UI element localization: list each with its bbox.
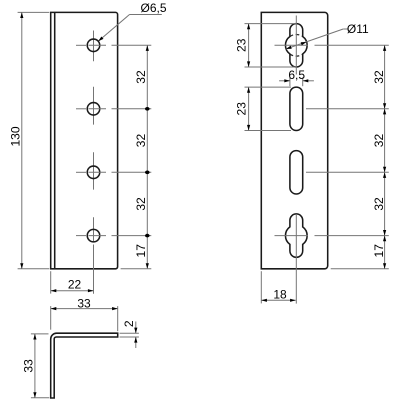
- svg-text:18: 18: [273, 287, 287, 301]
- dimension 33 (left) line: [34, 334, 36, 398]
- svg-text:17: 17: [372, 244, 386, 258]
- left view bend line: [54, 12, 56, 268]
- svg-text:32: 32: [134, 134, 148, 148]
- slot S2 outline: [290, 87, 303, 130]
- keyhole K1 horizontal centerline: [275, 44, 309, 46]
- left chain extension at bottom edge: [121, 268, 152, 270]
- dimension 6,5 line and arrows: [279, 80, 290, 82]
- keyhole K1 hidden Ø11 circle arcs (dashed): [290, 34, 303, 36]
- dimension 33 (top) line: [51, 308, 118, 310]
- dimension 18 line: [261, 299, 295, 301]
- hole H4 horizontal centerline: [76, 235, 86, 237]
- keyhole K4 outline: [285, 214, 307, 257]
- dimension 2 line and arrows: [135, 322, 137, 334]
- svg-text:22: 22: [68, 277, 82, 291]
- hole H1 extension line to dimension chain: [112, 44, 152, 46]
- dimension 23 (S2) line: [248, 87, 250, 130]
- svg-text:33: 33: [77, 297, 91, 311]
- svg-text:33: 33: [21, 359, 35, 373]
- svg-text:6,5: 6,5: [288, 68, 305, 82]
- svg-text:Ø11: Ø11: [347, 22, 369, 36]
- left view plate outline: [51, 12, 118, 268]
- right view plate outline: [261, 12, 327, 268]
- svg-text:32: 32: [372, 134, 386, 148]
- right chain extension at bottom edge: [331, 268, 389, 270]
- dimension 18 extension line: [260, 271, 262, 303]
- svg-text:32: 32: [134, 70, 148, 84]
- dimension 23 (S2) extension lines: [245, 86, 292, 88]
- dimension 33 (left) extension lines: [31, 333, 49, 335]
- dimension 33 (top) extension lines: [50, 306, 52, 330]
- svg-text:17: 17: [134, 244, 148, 258]
- dimension 2 extension lines: [120, 332, 139, 334]
- svg-text:23: 23: [234, 38, 248, 52]
- dimension 22 extension line: [50, 271, 52, 293]
- hole H2 horizontal centerline: [76, 108, 86, 110]
- dimension 6,5 extension lines: [289, 77, 291, 86]
- dimension 23 (K1) extension lines: [245, 23, 297, 25]
- svg-text:32: 32: [372, 70, 386, 84]
- keyhole K4 horizontal centerline: [275, 235, 309, 237]
- svg-text:2: 2: [122, 320, 136, 327]
- label Ø6,5 leader: [130, 14, 162, 16]
- right chain extension line row 4: [315, 235, 389, 237]
- svg-text:32: 32: [372, 197, 386, 211]
- right chain extension line row 2: [306, 108, 389, 110]
- hole H4 Ø6,5: [87, 229, 100, 242]
- left chain dimension line 32/32/32/17: [146, 45, 148, 268]
- keyhole K4 vertical centerline extended to dimension 18: [295, 215, 297, 304]
- right chain extension line row 3: [306, 171, 389, 173]
- hole H2 extension line to dimension chain: [112, 108, 152, 110]
- L-profile outline: [51, 333, 118, 398]
- svg-text:32: 32: [134, 197, 148, 211]
- keyhole K1 vertical centerline: [295, 16, 297, 75]
- dimension 130 extension lines: [18, 11, 50, 13]
- label Ø11 diameter line through K1: [286, 29, 343, 49]
- hole H2 Ø6,5: [87, 103, 100, 116]
- dimension 23 (K1) line: [248, 24, 250, 67]
- svg-text:Ø6,5: Ø6,5: [140, 1, 166, 15]
- svg-text:130: 130: [8, 126, 22, 146]
- right chain dimension line 32/32/32/17: [384, 45, 386, 268]
- hole H3 extension line to dimension chain: [112, 171, 152, 173]
- hole H3 Ø6,5: [87, 166, 100, 179]
- left view vertical centerline through holes: [93, 31, 95, 62]
- keyhole K1 outline: [285, 24, 307, 67]
- dimension 130 line: [21, 12, 23, 268]
- hole H3 horizontal centerline: [76, 171, 86, 173]
- right chain extension line row 1: [315, 44, 389, 46]
- hole H4 extension line to dimension chain: [112, 235, 152, 237]
- hole H1 Ø6,5: [87, 39, 100, 52]
- slot S3 outline: [290, 151, 303, 194]
- dimension 22 line: [51, 290, 94, 292]
- hole H1 horizontal centerline: [76, 44, 86, 46]
- svg-text:23: 23: [234, 102, 248, 116]
